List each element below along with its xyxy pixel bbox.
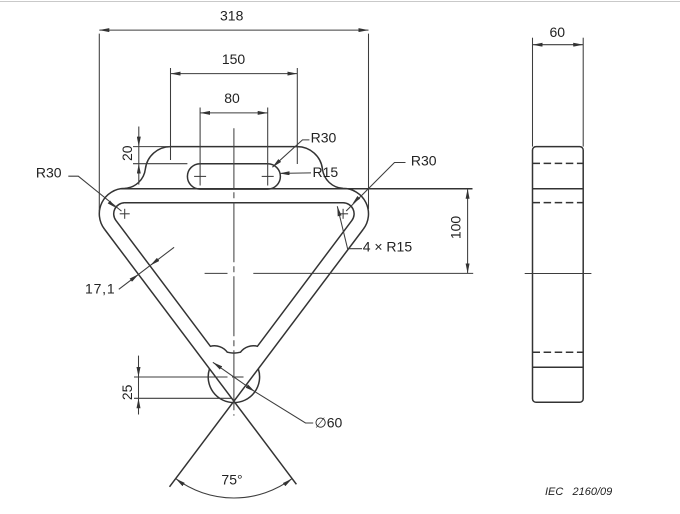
R30 left leader	[68, 176, 121, 211]
svg-text:R15: R15	[313, 164, 339, 180]
dim 80 ext / slot center marks	[199, 108, 201, 186]
side view hidden line slot top	[533, 162, 584, 164]
R30 upper leader (tab arc)	[272, 140, 309, 167]
svg-text:150: 150	[222, 51, 246, 67]
dim 75 deg arc	[176, 479, 292, 498]
slot center ticks	[194, 175, 206, 177]
vertical chain centerline	[233, 128, 235, 415]
dim 60 ext lines	[532, 38, 534, 147]
corner center mark right	[338, 213, 348, 215]
inner triangular cutout	[114, 203, 354, 353]
D60 leader with arrows	[213, 362, 255, 391]
svg-text:318: 318	[220, 8, 244, 24]
svg-text:75°: 75°	[221, 471, 242, 487]
side view chain centerline	[525, 273, 592, 275]
dim 100 line	[467, 189, 469, 274]
dim 150 line	[171, 73, 298, 75]
side view hidden line hole top	[533, 351, 584, 353]
svg-text:4 × R15: 4 × R15	[363, 239, 413, 255]
dim 25 arrows	[138, 356, 140, 377]
dim 25 ext lines	[134, 376, 228, 378]
right sloped edge extended through vertex	[170, 229, 364, 487]
faint page top border	[0, 1, 680, 3]
svg-text:IEC 2160/09: IEC 2160/09	[545, 486, 612, 498]
svg-text:80: 80	[224, 90, 240, 106]
svg-text:R30: R30	[411, 152, 437, 168]
4xR15 leader	[337, 206, 362, 249]
svg-text:R30: R30	[311, 129, 337, 145]
side view edge line top	[533, 188, 584, 190]
dim 60 line (side view)	[533, 44, 584, 46]
horizontal centerline dashes	[205, 272, 228, 274]
left sloped edge extended through vertex	[105, 229, 297, 484]
slot (stadium)	[187, 164, 280, 189]
corner center mark left	[120, 213, 130, 215]
dim 100 bottom ext / centerline solid	[253, 272, 473, 274]
svg-text:∅60: ∅60	[315, 414, 343, 430]
side view outline	[533, 147, 584, 403]
dim 20 ext lines	[133, 146, 171, 148]
hole circle D60	[208, 369, 259, 403]
side view	[533, 147, 584, 403]
svg-text:25: 25	[119, 384, 135, 400]
R30 right leader	[346, 163, 405, 212]
R15 leader	[280, 172, 312, 175]
svg-text:R30: R30	[36, 165, 62, 181]
side view edge line bottom	[533, 366, 584, 368]
dim 318 line	[99, 29, 368, 31]
dim 20 arrows	[138, 127, 140, 147]
svg-text:100: 100	[447, 216, 463, 240]
hole center tick	[232, 376, 244, 378]
dimension texts	[36, 8, 565, 488]
dim 150 ext right	[296, 68, 298, 164]
dim 150 ext left	[170, 68, 172, 160]
svg-text:20: 20	[119, 145, 135, 161]
top edge line with 100-dim extension	[121, 188, 473, 190]
svg-text:60: 60	[550, 24, 566, 40]
dim 318 ext right	[368, 34, 370, 209]
17,1 leader arrows	[119, 274, 139, 289]
dim 80 line	[200, 112, 268, 114]
svg-text:17,1: 17,1	[85, 281, 115, 297]
outer outline top (corners, fillets, tab)	[99, 147, 368, 230]
side view hidden line inner top	[533, 202, 584, 204]
dim 318 ext left	[98, 34, 100, 211]
